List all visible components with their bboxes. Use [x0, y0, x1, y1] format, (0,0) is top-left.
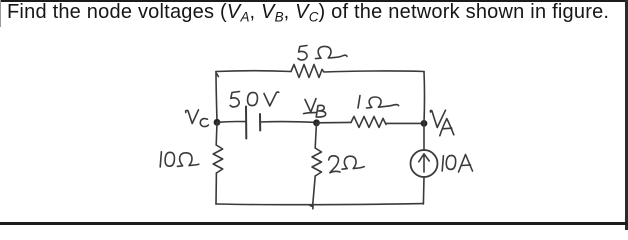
- value label 1 of 10A: [442, 156, 443, 171]
- resistor R-1ohm zigzag: [351, 116, 386, 127]
- value label 0 of 50V: [248, 92, 258, 105]
- node label V_C: [186, 110, 199, 124]
- value label 1 of 10-ohm: [160, 152, 161, 167]
- wire: top right corner down to node A: [423, 72, 426, 124]
- wire: node A down to current source: [423, 123, 425, 150]
- wire: 1-ohm to node A: [386, 122, 424, 124]
- value label 2 of 2-ohm: [329, 156, 340, 173]
- value label A of 10A: [459, 155, 473, 173]
- current source 10A circle: [411, 150, 438, 177]
- wire: current source to bottom right corner: [422, 177, 425, 204]
- wire: top left horizontal segment: [216, 70, 291, 73]
- wire: left vertical branch (top corner down to node C): [216, 72, 217, 123]
- node A junction dot: [421, 120, 428, 127]
- node B junction dot: [313, 119, 320, 126]
- value label ohm of 1-ohm: [367, 97, 399, 108]
- value label 5 of 50V: [230, 92, 239, 107]
- title text: [7, 1, 609, 24]
- battery 50V long plate: [245, 107, 247, 139]
- wire: below 2-ohm to bottom wire with tail: [310, 176, 315, 209]
- wire: below 10-ohm to bottom left corner: [215, 173, 217, 204]
- resistor R-5ohm zigzag on top wire: [291, 65, 322, 78]
- value label 0 of 10-ohm: [165, 152, 174, 166]
- wire: bottom horizontal: [216, 204, 423, 205]
- right border: [625, 0, 628, 230]
- wire: top right horizontal segment: [322, 70, 424, 73]
- bottom border: [0, 222, 628, 225]
- resistor R-10ohm vertical zigzag: [213, 145, 223, 173]
- battery 50V short plate: [259, 114, 261, 131]
- wire: battery to node B: [260, 121, 316, 124]
- value label V of 50V: [264, 92, 279, 106]
- current source arrow: [419, 154, 429, 172]
- value label ohm of 10-ohm: [177, 153, 198, 167]
- wire: node B to 1-ohm resistor: [317, 121, 352, 123]
- value label ohm of 2-ohm: [342, 156, 364, 169]
- node label V_B with underline: [305, 99, 316, 112]
- value label 5 of 5-ohm: [298, 46, 307, 61]
- node label V_A: [430, 110, 445, 127]
- value label 0 of 10A: [446, 155, 455, 169]
- node C junction dot: [214, 119, 221, 126]
- resistor R-2ohm vertical zigzag: [312, 148, 322, 176]
- value label ohm of 5-ohm: [316, 46, 348, 58]
- value label 1 of 1-ohm: [358, 96, 360, 109]
- left border stub: [0, 0, 1, 27]
- wire: node B down to 2-ohm resistor: [315, 123, 316, 148]
- wire: node C down to 10-ohm resistor: [215, 122, 218, 145]
- top border of question box: [1, 0, 628, 2]
- wire: node C to battery plate: [217, 120, 245, 123]
